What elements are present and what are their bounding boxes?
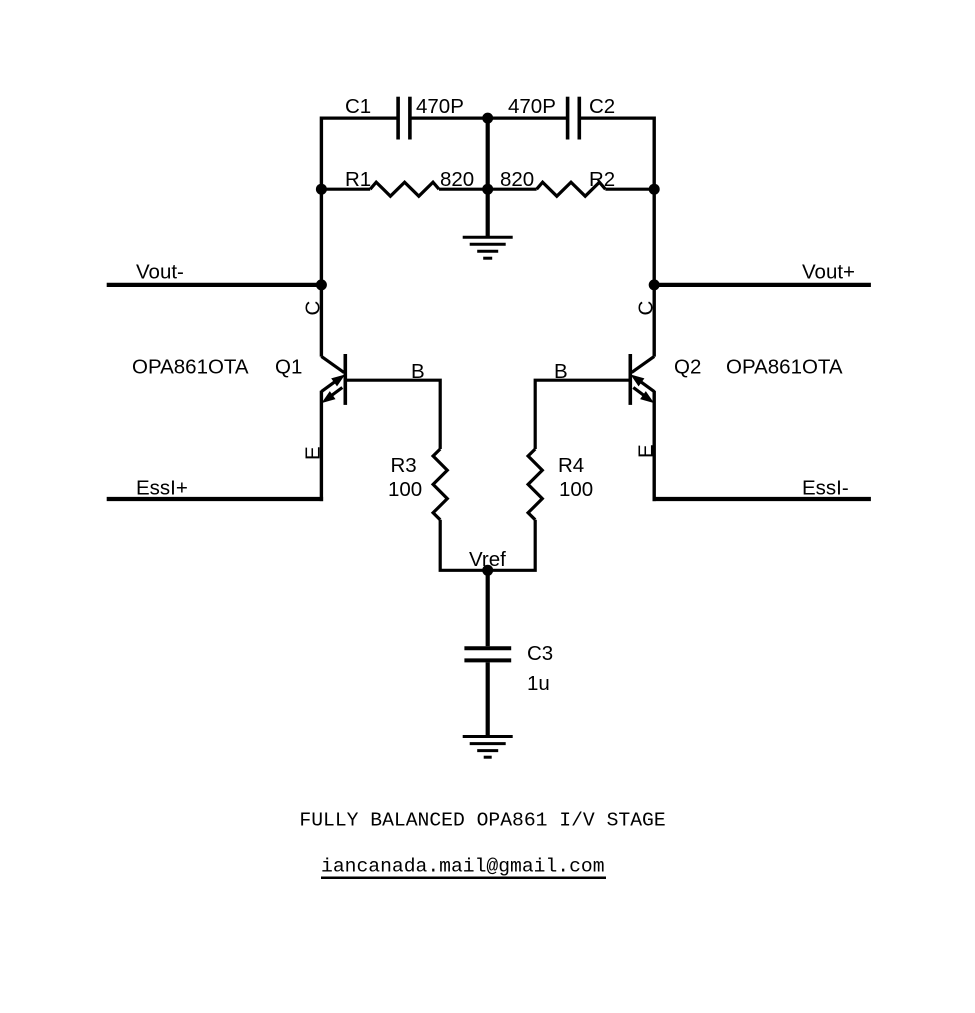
svg-text:820: 820 xyxy=(440,168,474,191)
node: junction dot Vout+ xyxy=(649,279,660,290)
svg-text:B: B xyxy=(411,360,425,383)
wire: Q1 base to R3 top corner xyxy=(346,380,440,449)
svg-text:EssI+: EssI+ xyxy=(136,477,188,500)
node: junction dot R1 left xyxy=(316,184,327,195)
transistor Q1 collector diagonal xyxy=(321,356,344,372)
svg-text:100: 100 xyxy=(559,478,593,501)
wire: R3 bottom to Vref node xyxy=(440,520,488,571)
wire: Vref node down to C3 xyxy=(486,570,490,646)
wire: EssI- lead xyxy=(653,497,871,501)
wire: right rail vertical (top corner through R2 node and Vout+ node to Q2 collector) xyxy=(653,117,656,357)
transistor Q2 base bar xyxy=(628,354,632,405)
wire: left rail vertical (top corner through R1 node and Vout- node to Q1 collector) xyxy=(320,117,323,357)
svg-text:Vout+: Vout+ xyxy=(802,261,855,284)
wire: Vout+ lead xyxy=(654,283,871,287)
svg-text:1u: 1u xyxy=(527,672,550,695)
node: junction dot Vout- xyxy=(316,279,327,290)
wire: R1 to R2 through center node xyxy=(439,188,537,191)
wire: R1 row, left node to R1 xyxy=(321,188,370,191)
capacitor C2 plates xyxy=(568,97,580,140)
transistor Q1 emitter arrow into bar xyxy=(321,376,343,392)
svg-text:470P: 470P xyxy=(508,95,556,118)
svg-text:Q1: Q1 xyxy=(275,356,302,379)
node: junction dot top center xyxy=(482,113,493,124)
svg-text:EssI-: EssI- xyxy=(802,477,849,500)
capacitor C1 plates xyxy=(398,97,410,140)
svg-text:OPA861OTA: OPA861OTA xyxy=(132,356,249,379)
wire: Q1 emitter vertical to EssI+ xyxy=(320,391,323,501)
svg-text:R4: R4 xyxy=(558,454,584,477)
resistor R2 zigzag xyxy=(537,182,606,196)
resistor R3 zigzag xyxy=(433,449,447,520)
transistor Q1 base bar xyxy=(343,354,347,405)
svg-text:R2: R2 xyxy=(589,168,615,191)
wire: R4 bottom to Vref node xyxy=(488,520,536,571)
node: junction dot Vref xyxy=(482,565,493,576)
svg-text:Q2: Q2 xyxy=(674,356,701,379)
svg-text:C2: C2 xyxy=(589,95,615,118)
transistor Q2 emitter arrow into bar xyxy=(632,376,654,392)
svg-text:C: C xyxy=(302,301,325,316)
svg-text:E: E xyxy=(635,444,658,458)
resistor R1 zigzag xyxy=(370,182,439,196)
transistor Q2 emitter arrow out of bar xyxy=(633,388,652,402)
svg-text:C1: C1 xyxy=(345,95,371,118)
wire: C1 to C2 through center node xyxy=(410,116,568,119)
wire: top capacitor row left rail to C1 xyxy=(321,116,398,119)
resistor R4 zigzag xyxy=(528,449,542,520)
svg-text:C3: C3 xyxy=(527,642,553,665)
wire: C3 to bottom ground xyxy=(486,662,490,736)
svg-text:OPA861OTA: OPA861OTA xyxy=(726,356,843,379)
capacitor C3 plates xyxy=(464,648,511,660)
svg-text:B: B xyxy=(554,360,568,383)
transistor Q2 collector diagonal xyxy=(632,356,655,372)
svg-text:R3: R3 xyxy=(391,454,417,477)
svg-text:Vref: Vref xyxy=(469,548,506,571)
node: junction dot R2 right xyxy=(649,184,660,195)
svg-text:FULLY BALANCED OPA861 I/V STAG: FULLY BALANCED OPA861 I/V STAGE xyxy=(299,810,665,832)
wire: Q2 base to R4 top corner xyxy=(535,380,629,449)
wire: EssI+ lead xyxy=(107,497,323,501)
node: junction dot center R row xyxy=(482,184,493,195)
svg-text:iancanada.mail@gmail.com: iancanada.mail@gmail.com xyxy=(321,856,605,878)
svg-text:470P: 470P xyxy=(416,95,464,118)
wire: C2 to right rail xyxy=(579,116,654,119)
ground bottom symbol xyxy=(463,737,513,758)
svg-text:R1: R1 xyxy=(345,168,371,191)
svg-text:820: 820 xyxy=(500,168,534,191)
wire: center vertical from top node to ground xyxy=(486,118,490,237)
svg-text:C: C xyxy=(635,301,658,316)
wire: Q2 emitter vertical to EssI- xyxy=(653,391,656,501)
wire: Vout- lead xyxy=(107,283,322,287)
ground top symbol xyxy=(463,237,513,258)
svg-text:E: E xyxy=(302,446,325,460)
wire: R2 to right node xyxy=(605,188,654,191)
svg-text:100: 100 xyxy=(388,478,422,501)
transistor Q1 emitter arrow out of bar xyxy=(323,388,342,402)
svg-text:Vout-: Vout- xyxy=(136,261,184,284)
